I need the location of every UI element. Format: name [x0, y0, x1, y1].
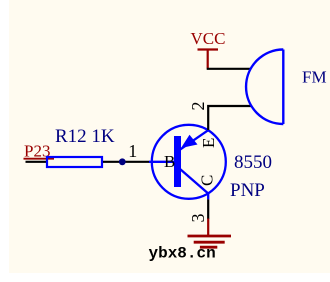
junction dot: [119, 158, 126, 165]
wire collector to ground: [207, 199, 209, 219]
speaker FM: [246, 50, 283, 125]
svg-text:8550: 8550: [234, 152, 272, 173]
ground: [188, 219, 232, 248]
wire VCC to speaker: [207, 68, 251, 70]
svg-text:1: 1: [128, 141, 137, 161]
svg-text:ybx8.cn: ybx8.cn: [149, 245, 216, 263]
resistor R12: [47, 157, 102, 167]
svg-text:C: C: [198, 175, 217, 186]
wire emitter to speaker: [208, 106, 251, 130]
power VCC: [191, 29, 226, 69]
svg-text:PNP: PNP: [230, 180, 265, 201]
svg-text:E: E: [199, 138, 218, 148]
svg-text:2: 2: [188, 102, 208, 111]
svg-text:B: B: [164, 152, 175, 171]
wire left stub to R12: [26, 161, 48, 163]
svg-text:FM: FM: [302, 68, 327, 87]
net label P23: [24, 142, 55, 161]
wire R12 to base: [103, 161, 150, 163]
svg-text:R12 1K: R12 1K: [55, 126, 115, 147]
svg-text:VCC: VCC: [191, 29, 226, 48]
svg-text:3: 3: [188, 214, 208, 223]
transistor 8550 (PNP): [149, 125, 226, 200]
